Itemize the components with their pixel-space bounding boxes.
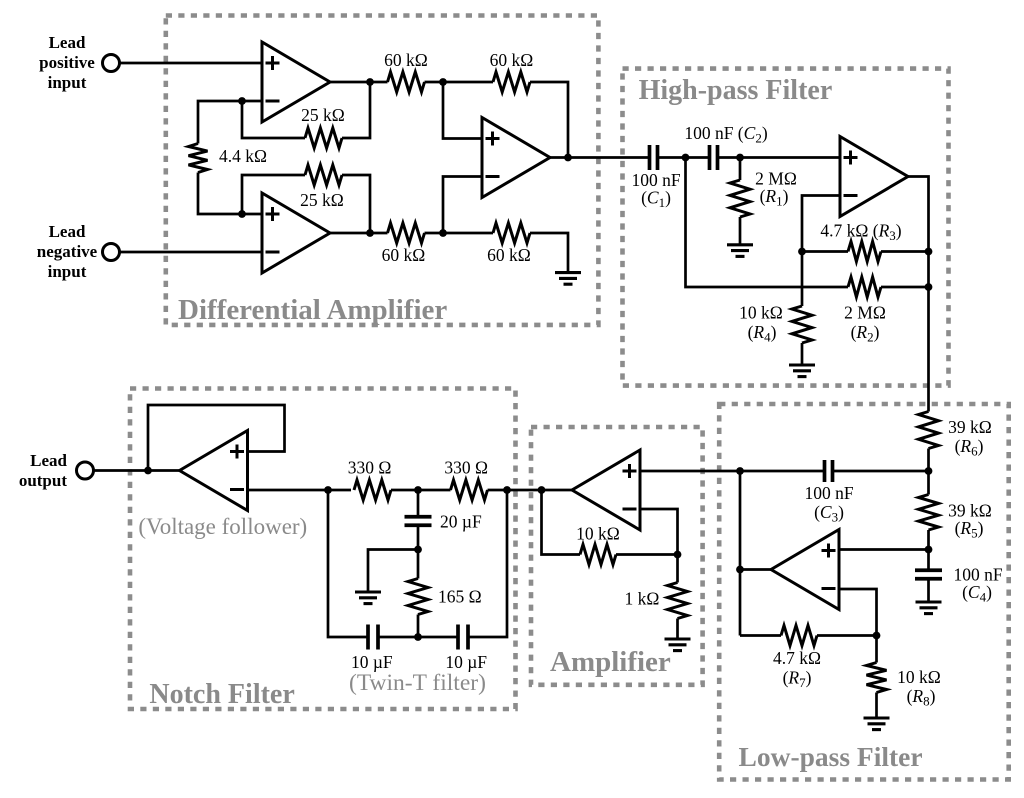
resistor R4 10 kΩ [792, 252, 812, 366]
wire C3 right lead [833, 470, 929, 473]
capacitor C3 100 nF [825, 460, 833, 482]
wire feedback row left leg [542, 490, 581, 555]
svg-text:(R5): (R5) [955, 518, 984, 541]
block box: Amplifier [531, 427, 703, 685]
junction dot 20uF bottom node [414, 546, 422, 554]
capacitor 10 µF (right) [458, 625, 468, 650]
wire R2 right lead [881, 286, 929, 289]
wire top node down to U3 + input [443, 82, 482, 139]
wire bottom node up to U3 - input [443, 177, 482, 234]
wire R7 right lead [817, 634, 877, 637]
resistor 330 Ω (left) [354, 480, 391, 500]
label 10 µF (left) [351, 652, 393, 672]
op-amp U5 [771, 530, 839, 610]
svg-text:input: input [48, 262, 87, 281]
junction dot C3 left node [736, 467, 744, 475]
svg-text:100 nF: 100 nF [804, 483, 853, 503]
resistor 1 kΩ [668, 555, 688, 640]
title Low-pass Filter [739, 741, 923, 772]
junction dot U1 - node [238, 97, 246, 105]
op-amp U1 [262, 42, 330, 122]
svg-text:High-pass Filter: High-pass Filter [639, 75, 833, 106]
svg-text:negative: negative [37, 242, 98, 261]
wire Lead positive input to U1 + [120, 62, 263, 65]
label (Twin-T filter) [349, 670, 486, 696]
wire R7 left lead [740, 634, 781, 637]
svg-text:20 µF: 20 µF [440, 512, 482, 532]
label (Voltage follower) [138, 514, 307, 539]
svg-text:10 kΩ: 10 kΩ [739, 303, 783, 323]
wire U2 feedback right leg [342, 175, 370, 233]
junction dot R3 left node [798, 248, 806, 256]
ground (diff amp) [555, 273, 581, 285]
svg-text:(R4): (R4) [748, 322, 777, 345]
junction dot twin-T left node [324, 486, 332, 494]
capacitor C1 100 nF [650, 145, 658, 170]
resistor R8 10 kΩ [867, 636, 887, 719]
terminal: Lead positive input [103, 55, 120, 72]
label 100 nF (C4) [953, 565, 1002, 605]
junction dot U5 output node [736, 566, 744, 574]
svg-text:4.4 kΩ: 4.4 kΩ [219, 146, 267, 166]
wire left rail of LPF [739, 471, 742, 636]
wire R3 right lead [881, 250, 929, 253]
svg-text:(R2): (R2) [851, 322, 880, 345]
label 60 kΩ (c) [382, 245, 426, 265]
svg-text:165 Ω: 165 Ω [438, 587, 482, 607]
svg-text:60 kΩ: 60 kΩ [384, 50, 428, 70]
wire U3 output [550, 156, 650, 159]
wire U4 - to R3 node [802, 196, 840, 252]
resistor 165 Ω [408, 550, 428, 638]
junction dot feedback node [674, 551, 682, 559]
svg-text:39 kΩ: 39 kΩ [948, 417, 992, 437]
wire U4 output down right side [908, 177, 929, 412]
svg-text:330 Ω: 330 Ω [444, 457, 488, 477]
label 60 kΩ (a) [384, 50, 428, 70]
wire U7 feedback loop [148, 405, 285, 471]
label 2 MΩ (R1) [755, 169, 797, 209]
wire R3 left lead [802, 250, 848, 253]
svg-text:330 Ω: 330 Ω [348, 457, 392, 477]
wire 330 right to U6 output [488, 489, 573, 492]
label 25 kΩ upper [301, 105, 345, 125]
terminal: Lead output [77, 462, 94, 479]
label 330 Ω (right) [444, 457, 488, 477]
resistor 60 kΩ (a) [388, 72, 425, 92]
junction dot R5 bottom node [925, 546, 933, 554]
junction dot twin-T mid node [414, 486, 422, 494]
svg-text:Lead: Lead [49, 33, 86, 52]
resistor R7 4.7 kΩ [781, 626, 817, 646]
svg-text:(Voltage follower): (Voltage follower) [138, 514, 307, 539]
svg-text:(R1): (R1) [760, 186, 789, 209]
ground (1 kΩ) [665, 639, 691, 651]
wire C2 to U4 + [718, 156, 841, 159]
ground (twin-T) [355, 592, 381, 604]
svg-text:10 µF: 10 µF [351, 652, 393, 672]
resistor R6 39 kΩ [919, 412, 939, 472]
label 39 kΩ (R6) [948, 417, 992, 459]
resistor R5 39 kΩ [919, 471, 939, 550]
wire Lead negative input to U2 - [120, 251, 263, 254]
label 100 nF (C3) [804, 483, 853, 525]
terminal: Lead negative input [103, 244, 120, 261]
op-amp U4 [840, 137, 908, 217]
op-amp U7 voltage follower [180, 431, 248, 511]
label 4.7 kΩ (R7) [773, 648, 821, 690]
svg-text:60 kΩ: 60 kΩ [490, 50, 534, 70]
block box: Notch Filter [130, 389, 516, 710]
junction dot R7 right node [873, 632, 881, 640]
svg-text:10 µF: 10 µF [445, 652, 487, 672]
wire U5 output to left rail [740, 568, 771, 571]
label 10 µF (right) [445, 652, 487, 672]
svg-text:(R6): (R6) [955, 436, 984, 459]
svg-text:Lead: Lead [49, 222, 86, 241]
resistor R2 2 MΩ [848, 277, 881, 297]
svg-text:Notch Filter: Notch Filter [149, 679, 294, 710]
junction dot C1-C2 node [682, 154, 690, 162]
op-amp U2 [262, 193, 330, 273]
capacitor 10 µF (left) [368, 625, 378, 650]
svg-text:25 kΩ: 25 kΩ [301, 105, 345, 125]
title High-pass Filter [639, 75, 833, 106]
junction dot R3 right node [925, 248, 933, 256]
label 25 kΩ lower [300, 190, 344, 210]
junction dot top mid node [439, 78, 447, 86]
svg-text:10 kΩ: 10 kΩ [576, 524, 620, 544]
wire 60k(d) to ground [530, 233, 568, 273]
svg-text:10 kΩ: 10 kΩ [897, 667, 941, 687]
resistor R3 4.7 kΩ [848, 242, 881, 262]
svg-text:60 kΩ: 60 kΩ [382, 245, 426, 265]
junction dot R6 bottom node [925, 467, 933, 475]
junction dot U1 output [366, 78, 374, 86]
label 330 Ω (left) [348, 457, 392, 477]
junction dot U7 output node [144, 467, 152, 475]
wire bottom row left leg up [328, 490, 368, 637]
svg-text:(C3): (C3) [814, 502, 844, 525]
ground (R4) [789, 365, 815, 377]
block box: Low-pass Filter [719, 404, 1009, 780]
block box: Differential Amplifier [166, 16, 599, 325]
label 2 MΩ (R2) [844, 303, 886, 345]
junction dot feedback tap [538, 486, 546, 494]
wire C1 to C2 [658, 156, 710, 159]
label Lead positive input [39, 33, 95, 92]
svg-text:input: input [48, 73, 87, 92]
wire U5 + input [839, 548, 929, 551]
label 4.4 kΩ [219, 146, 267, 166]
junction dot R2 right node [925, 283, 933, 291]
label 10 kΩ (amplifier) [576, 524, 620, 544]
svg-text:positive: positive [39, 53, 95, 72]
junction dot bottom mid node [439, 229, 447, 237]
label Lead output [19, 451, 68, 490]
svg-text:25 kΩ: 25 kΩ [300, 190, 344, 210]
wire U6 - to feedback node [640, 509, 678, 555]
wire feedback row right lead [616, 553, 678, 556]
resistor 60 kΩ (d) [493, 223, 530, 243]
svg-text:Differential Amplifier: Differential Amplifier [178, 294, 447, 326]
resistor R1 2 MΩ [730, 158, 750, 245]
svg-text:1 kΩ: 1 kΩ [625, 589, 660, 609]
label 4.7 kΩ (R3) [820, 221, 901, 244]
op-amp U3 [482, 118, 550, 198]
capacitor C2 100 nF [710, 145, 718, 170]
wire 60k(b) to U3 output node [530, 82, 568, 158]
ground (C4) [916, 602, 942, 614]
label 39 kΩ (R5) [948, 500, 992, 540]
capacitor C4 100 nF [915, 550, 942, 603]
label 1 kΩ [625, 589, 660, 609]
junction dot twin-T bottom node [414, 633, 422, 641]
wire C1 node down to R2 row [686, 158, 849, 288]
svg-text:4.7 kΩ: 4.7 kΩ [773, 648, 821, 668]
svg-text:(R7): (R7) [783, 668, 812, 691]
svg-text:100 nF (C2): 100 nF (C2) [684, 123, 768, 146]
resistor 10 kΩ (U6 feedback) [580, 545, 616, 565]
label 165 Ω [438, 587, 482, 607]
wire 330 left to mid [391, 489, 451, 492]
junction dot twin-T right node [503, 486, 511, 494]
svg-text:Amplifier: Amplifier [550, 646, 671, 678]
block box: High-pass Filter [623, 69, 949, 386]
junction dot U3 output [564, 154, 572, 162]
title Differential Amplifier [178, 294, 447, 326]
title Notch Filter [149, 679, 294, 710]
label 100 nF (C2) [684, 123, 768, 146]
resistor 60 kΩ (c) [388, 223, 425, 243]
svg-text:(C4): (C4) [962, 582, 992, 605]
wire bottom row right leg up [468, 490, 507, 637]
wire U1 feedback left leg [242, 101, 305, 138]
svg-text:Low-pass Filter: Low-pass Filter [739, 741, 923, 772]
ground (R8) [864, 718, 890, 730]
wire 20uF node to ground [368, 550, 418, 593]
capacitor 20 µF [405, 490, 432, 550]
wire U1 feedback right leg [342, 82, 370, 138]
resistor 25 kΩ (U1 feedback) [305, 128, 342, 148]
label 60 kΩ (b) [490, 50, 534, 70]
op-amp U6 [572, 450, 640, 530]
label 20 µF [440, 512, 482, 532]
svg-text:output: output [19, 471, 68, 490]
wire 4.4k to U2 + input [198, 173, 262, 215]
wire C3 row left (U6 + input) [640, 470, 825, 473]
resistor 330 Ω (right) [451, 480, 488, 500]
resistor 60 kΩ (b) [493, 72, 530, 92]
svg-text:60 kΩ: 60 kΩ [487, 245, 531, 265]
svg-text:Lead: Lead [30, 451, 67, 470]
ground (R1) [727, 245, 753, 257]
wire U2 output row [330, 232, 388, 235]
wire 60k(c) to 60k(d) [425, 232, 494, 235]
svg-text:(R8): (R8) [907, 686, 936, 709]
label Lead negative input [37, 222, 98, 281]
svg-text:(Twin-T filter): (Twin-T filter) [349, 670, 486, 696]
junction dot R1 top node [736, 154, 744, 162]
wire bottom row right lead [418, 636, 458, 639]
resistor 25 kΩ (U2 feedback) [305, 165, 342, 185]
wire U7 - input row [248, 489, 352, 492]
title Amplifier [550, 646, 671, 678]
wire bottom row left lead [378, 636, 418, 639]
wire U5 - to R7 node [839, 589, 877, 636]
label 10 kΩ (R4) [739, 303, 783, 345]
wire U1 - input to 4.4k branch [198, 101, 262, 144]
label 60 kΩ (d) [487, 245, 531, 265]
label 10 kΩ (R8) [897, 667, 941, 709]
svg-text:2 MΩ: 2 MΩ [844, 303, 886, 323]
wire U7 output to Lead output [94, 469, 180, 472]
wire U1 output row [330, 81, 388, 84]
svg-text:(C1): (C1) [641, 188, 671, 211]
junction dot U2 + node [238, 210, 246, 218]
label 100 nF (C1) [631, 170, 680, 210]
resistor 4.4 kΩ [189, 144, 208, 173]
junction dot U2 output [366, 229, 374, 237]
wire U2 feedback left leg [242, 175, 305, 214]
wire 60k(a) to 60k(b) [425, 81, 494, 84]
